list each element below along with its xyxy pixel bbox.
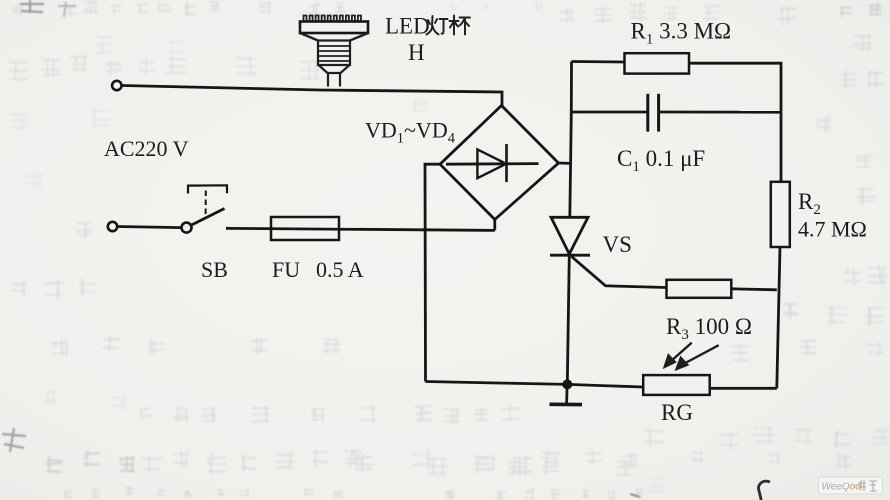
svg-text:0.5 A: 0.5 A — [316, 257, 364, 282]
svg-text:LED: LED — [385, 14, 430, 39]
svg-text:RG: RG — [661, 400, 693, 425]
svg-text:SB: SB — [201, 257, 228, 282]
svg-text:4.7 MΩ: 4.7 MΩ — [798, 217, 867, 242]
svg-text:AC220 V: AC220 V — [104, 136, 189, 161]
svg-text:VD1~VD4: VD1~VD4 — [365, 118, 456, 147]
svg-text:R3 100 Ω: R3 100 Ω — [666, 314, 752, 343]
svg-text:C1 0.1 μF: C1 0.1 μF — [617, 146, 705, 175]
svg-text:FU: FU — [272, 257, 300, 282]
svg-text:R1 3.3 MΩ: R1 3.3 MΩ — [631, 19, 732, 48]
svg-text:WeeQoo: WeeQoo — [822, 482, 862, 493]
svg-text:VS: VS — [603, 232, 632, 257]
svg-text:H: H — [408, 40, 425, 65]
